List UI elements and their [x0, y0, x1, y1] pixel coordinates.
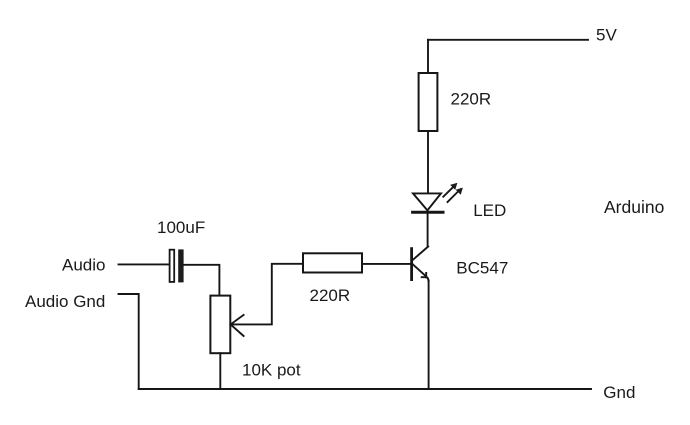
svg-text:10K pot: 10K pot	[242, 361, 301, 380]
LED label	[473, 201, 506, 220]
svg-text:5V: 5V	[596, 26, 617, 45]
node Audio label	[62, 256, 105, 275]
wire R1 to LED	[427, 131, 429, 193]
wire C1 to pot top	[184, 265, 220, 296]
wire LED to Q1 collector	[413, 210, 428, 259]
svg-text:Gnd: Gnd	[603, 383, 635, 402]
svg-text:LED: LED	[473, 201, 506, 220]
resistor R2 (220R horizontal)	[303, 253, 362, 272]
Q1 label BC547	[456, 258, 508, 277]
svg-text:BC547: BC547	[456, 258, 508, 277]
value label 10K pot	[242, 361, 301, 380]
wire pot wiper to R2	[231, 264, 303, 325]
wire 5V to R1	[427, 40, 429, 73]
value label 100uF	[157, 218, 205, 237]
wire pot bottom to Gnd rail	[219, 353, 221, 389]
node Gnd label	[603, 383, 635, 402]
value label 220R (R2)	[310, 286, 351, 305]
node Audio Gnd label	[25, 292, 105, 311]
wire Gnd rail	[139, 388, 591, 390]
potentiometer RV1 (10K pot)	[210, 296, 243, 354]
wire 5V rail	[428, 39, 588, 41]
transistor Q1 BC547	[412, 249, 429, 281]
svg-text:Audio: Audio	[62, 256, 105, 275]
wire R2 to Q1 base	[362, 263, 410, 265]
svg-text:100uF: 100uF	[157, 218, 205, 237]
svg-text:Arduino: Arduino	[604, 197, 664, 217]
wire Audio to C1	[119, 263, 170, 265]
node Arduino label	[604, 197, 664, 217]
capacitor C1 (100uF)	[170, 249, 184, 282]
LED D1	[413, 183, 463, 213]
svg-text:220R: 220R	[310, 286, 351, 305]
value label 220R (R1)	[451, 90, 492, 109]
wire Q1 emitter to Gnd rail	[428, 281, 430, 389]
node 5V label	[596, 26, 617, 45]
svg-text:Audio Gnd: Audio Gnd	[25, 292, 105, 311]
svg-text:220R: 220R	[451, 90, 492, 109]
resistor R1 (220R vertical)	[419, 73, 438, 131]
wire Audio Gnd to rail	[119, 294, 139, 389]
